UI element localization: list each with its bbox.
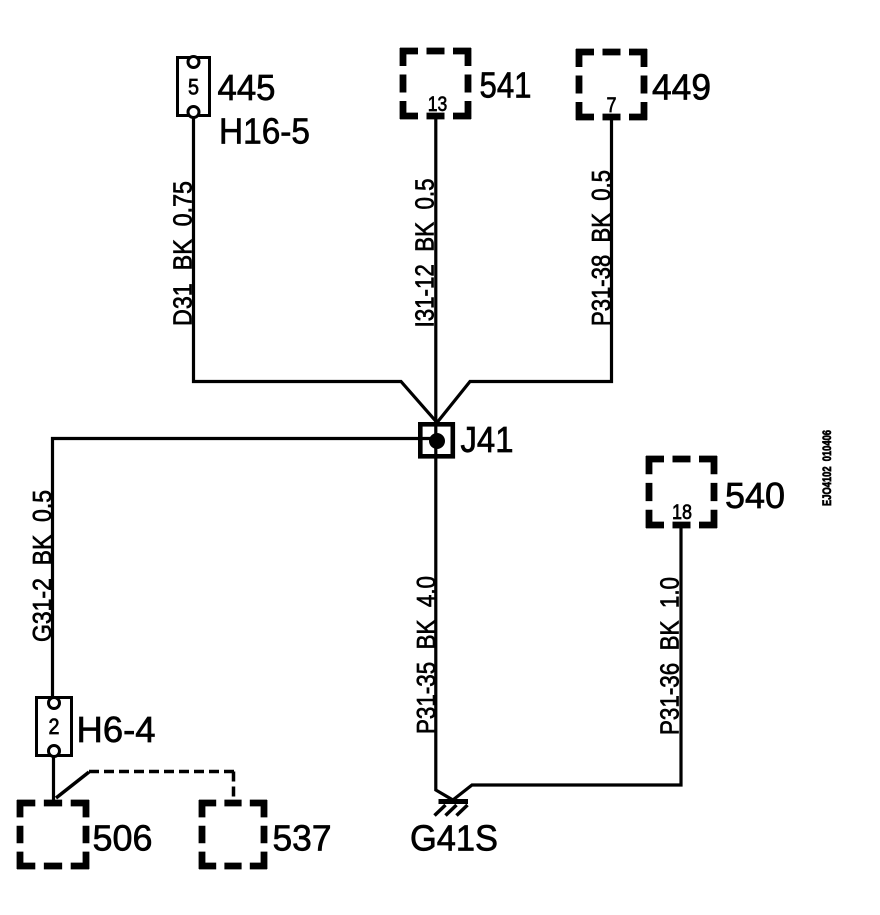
svg-text:D31 BK 0.75: D31 BK 0.75 bbox=[170, 181, 198, 326]
svg-text:5: 5 bbox=[188, 75, 199, 100]
svg-text:EJO4102 010406: EJO4102 010406 bbox=[820, 430, 834, 506]
svg-text:H6-4: H6-4 bbox=[77, 709, 156, 750]
svg-text:445: 445 bbox=[218, 67, 276, 108]
svg-text:I31-12 BK 0.5: I31-12 BK 0.5 bbox=[412, 179, 440, 328]
svg-text:H16-5: H16-5 bbox=[219, 110, 310, 151]
svg-text:P31-38 BK 0.5: P31-38 BK 0.5 bbox=[588, 170, 616, 326]
svg-text:13: 13 bbox=[428, 93, 448, 116]
svg-text:537: 537 bbox=[273, 818, 332, 859]
svg-text:7: 7 bbox=[607, 94, 617, 117]
svg-text:541: 541 bbox=[480, 65, 532, 106]
svg-text:P31-36 BK 1.0: P31-36 BK 1.0 bbox=[657, 577, 685, 735]
svg-text:540: 540 bbox=[725, 475, 785, 516]
svg-text:G41S: G41S bbox=[410, 818, 498, 859]
svg-text:449: 449 bbox=[652, 67, 711, 108]
svg-text:18: 18 bbox=[672, 501, 692, 524]
svg-text:P31-35 BK 4.0: P31-35 BK 4.0 bbox=[413, 576, 441, 734]
svg-text:G31-2 BK 0.5: G31-2 BK 0.5 bbox=[29, 490, 57, 642]
svg-text:506: 506 bbox=[93, 818, 153, 859]
svg-text:2: 2 bbox=[49, 714, 60, 739]
svg-text:J41: J41 bbox=[461, 419, 514, 460]
